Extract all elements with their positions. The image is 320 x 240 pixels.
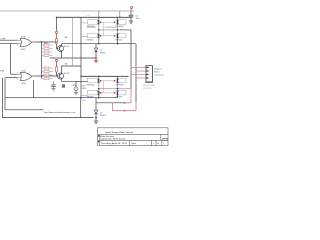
svg-text:FR302: FR302 bbox=[100, 115, 106, 117]
svg-text:D2: D2 bbox=[100, 112, 102, 114]
gate IC1B input pins bbox=[17, 73, 21, 75]
svg-text:IC1B: IC1B bbox=[21, 70, 26, 72]
wire rail drops top bridge bbox=[98, 17, 100, 19]
wire mid nodes top bridge bbox=[98, 25, 100, 34]
diode D1 FR302 bbox=[95, 44, 97, 48]
wire bus continuation down bbox=[80, 98, 82, 118]
wire drop from top bus to rail left bbox=[98, 11, 100, 17]
wire R2 to base bbox=[57, 72, 59, 76]
svg-text:IRF9530: IRF9530 bbox=[87, 85, 96, 87]
wire resistor bus vertical bbox=[41, 42, 43, 79]
gate channel top bridge bbox=[101, 22, 114, 36]
transistor T8 IRF530 bbox=[114, 90, 126, 98]
transistor T7 IRF530 bbox=[87, 90, 102, 98]
gate stubs from bus bbox=[81, 22, 88, 24]
gate IC1A output pin bbox=[32, 41, 35, 43]
wire input lower bbox=[0, 43, 17, 45]
wire +12V top rail bbox=[57, 16, 132, 18]
svg-text:5: 5 bbox=[17, 73, 18, 75]
wire Q1 collector bbox=[61, 44, 63, 47]
svg-text:Copyright 2011, Wichit Siricho: Copyright 2011, Wichit Sirichote bbox=[100, 138, 126, 141]
wire R1 to base bbox=[57, 44, 59, 49]
ground flag below D1 bbox=[95, 58, 97, 60]
wire Q1 emitter sense line bbox=[50, 57, 96, 59]
svg-text:GND: GND bbox=[82, 88, 87, 90]
node D1 bbox=[95, 57, 97, 59]
transistor Q1 bbox=[57, 45, 63, 51]
wire bottom bridge source line bbox=[6, 97, 118, 99]
wire D2 feed bbox=[95, 98, 97, 110]
power flag +12V B bbox=[55, 59, 57, 61]
svg-text:IRF530: IRF530 bbox=[87, 40, 95, 42]
wire drop from top bus to rail bbox=[119, 11, 121, 17]
wire mid nodes bottom bridge bbox=[98, 83, 100, 91]
wire rail drops bottom bridge bbox=[98, 76, 100, 78]
svg-text:IRF530: IRF530 bbox=[116, 40, 124, 42]
node bottom junctions bbox=[98, 43, 100, 45]
title block cell marks bbox=[98, 135, 99, 136]
svg-text:http://www.wichitelectronics.c: http://www.wichitelectronics.com bbox=[44, 111, 76, 114]
svg-text:DIR: DIR bbox=[0, 70, 4, 72]
svg-text:D1: D1 bbox=[100, 50, 102, 52]
ground below C5 bbox=[130, 17, 132, 21]
node rail junctions bbox=[56, 17, 57, 18]
rev cell bbox=[163, 138, 167, 140]
svg-text:10k: 10k bbox=[65, 37, 68, 39]
svg-text:CON4: CON4 bbox=[146, 81, 153, 84]
wire motor pink 3 bbox=[131, 74, 146, 76]
svg-text:100n: 100n bbox=[136, 18, 140, 20]
svg-text:IRF9530: IRF9530 bbox=[116, 85, 125, 87]
resistor R1 bbox=[56, 39, 58, 44]
resistor array RN2 bbox=[42, 68, 54, 79]
gate IC1A bbox=[20, 38, 31, 46]
svg-text:4 POSITION: 4 POSITION bbox=[143, 88, 153, 90]
wire input STEP bbox=[0, 39, 17, 41]
power flag +12V A bbox=[55, 31, 57, 33]
svg-text:Thursday, April 28, 2011: Thursday, April 28, 2011 bbox=[101, 142, 128, 145]
node output A bbox=[98, 29, 100, 31]
title block bbox=[98, 128, 169, 146]
transistor T1 IRF9530 bbox=[87, 20, 102, 28]
label 100n blob bbox=[62, 84, 65, 87]
wire output A bbox=[99, 29, 120, 31]
gate IC1B bbox=[20, 72, 31, 80]
node gate1 out bbox=[41, 41, 43, 43]
wire sense line lower bbox=[96, 102, 126, 104]
svg-text:PGND: PGND bbox=[81, 100, 87, 102]
wire IC1B output to driver B bbox=[35, 75, 58, 77]
LED1 bbox=[75, 81, 77, 87]
ground below LED1 bbox=[74, 92, 78, 94]
power flag +MOTOR bbox=[131, 6, 133, 8]
resistor R2 bbox=[56, 67, 58, 72]
gate channel bottom bridge bbox=[101, 81, 114, 93]
svg-text:Sheet: Sheet bbox=[132, 142, 137, 145]
transistor T2 IRF9530 bbox=[114, 20, 126, 28]
svg-text:FR302: FR302 bbox=[100, 52, 106, 54]
node output C bbox=[98, 88, 100, 90]
ground below D2 bbox=[95, 118, 97, 121]
svg-text:IC1A: IC1A bbox=[21, 35, 26, 38]
node D2 bottom bbox=[95, 117, 97, 119]
capacitor C2 bbox=[51, 81, 55, 88]
svg-text:6: 6 bbox=[17, 79, 18, 81]
svg-text:BC557: BC557 bbox=[64, 73, 70, 75]
wire +12V bus vertical bbox=[80, 17, 82, 97]
wire mid vertical bbox=[72, 17, 74, 66]
stub under labels bbox=[87, 26, 96, 28]
wire output C bbox=[99, 88, 131, 90]
connector CON1 bbox=[146, 66, 153, 83]
wire IC1A output bbox=[35, 41, 57, 43]
wire loop lower bbox=[113, 103, 137, 111]
node source junctions bbox=[98, 97, 100, 99]
svg-text:1: 1 bbox=[164, 139, 165, 141]
node pink junction bbox=[124, 102, 126, 104]
svg-text:Stepper: Stepper bbox=[154, 67, 162, 70]
capacitor C5 bbox=[129, 14, 134, 16]
wire motor pink 1 bbox=[131, 67, 146, 69]
wire IC1B lower input bbox=[5, 77, 17, 79]
svg-text:SCREW-TERM: SCREW-TERM bbox=[143, 85, 155, 87]
wire motor pink 4 bbox=[136, 77, 146, 79]
gate IC1B output pin bbox=[32, 75, 35, 77]
wire motor pink 2 bbox=[136, 70, 146, 72]
svg-text:1: 1 bbox=[163, 143, 164, 145]
resistor array RN1 bbox=[42, 45, 54, 56]
transistor T3 IRF530 bbox=[87, 33, 102, 41]
svg-text:1: 1 bbox=[153, 143, 154, 145]
wire Q2 collector bbox=[62, 66, 81, 74]
wire bridge bottom line bbox=[62, 43, 136, 45]
svg-text:10k: 10k bbox=[65, 64, 68, 66]
wire motor column B bbox=[135, 44, 137, 103]
svg-text:Connector: Connector bbox=[154, 74, 164, 77]
svg-text:Motor: Motor bbox=[154, 71, 160, 74]
svg-text:RN1: RN1 bbox=[44, 43, 48, 45]
svg-text:2: 2 bbox=[17, 45, 18, 47]
wire left bus A bbox=[5, 78, 44, 110]
ground below C2 bbox=[52, 89, 56, 91]
wire +12V bottom rail bbox=[81, 75, 129, 77]
wire Q2 emitter gate line bbox=[62, 78, 88, 81]
svg-text:1: 1 bbox=[17, 39, 18, 41]
svg-text:LED1: LED1 bbox=[72, 85, 77, 87]
transistor T4 IRF530 bbox=[114, 33, 126, 41]
diode D2 FR302 bbox=[94, 110, 97, 114]
wire motor column A bbox=[130, 30, 132, 89]
gate IC1A input pins bbox=[17, 39, 21, 41]
sheet top border bbox=[0, 10, 134, 12]
wire below IC1B to bottom bus bbox=[33, 80, 35, 98]
wire left bus B bbox=[3, 78, 94, 118]
svg-text:STEP: STEP bbox=[0, 38, 6, 40]
transistor T6 IRF9530 bbox=[114, 78, 126, 86]
svg-text:Sparky Stepper Motor Controlle: Sparky Stepper Motor Controller bbox=[105, 131, 134, 134]
wire rail drop bbox=[56, 17, 58, 31]
transistor T5 IRF9530 bbox=[87, 78, 102, 86]
svg-text:BC557: BC557 bbox=[64, 46, 70, 48]
wire IC1A lower input to IC1B input bbox=[11, 44, 18, 74]
gate stubs from bus bottom bbox=[81, 95, 88, 97]
svg-text:IRF9530: IRF9530 bbox=[116, 26, 125, 28]
transistor Q2 bbox=[57, 73, 63, 79]
